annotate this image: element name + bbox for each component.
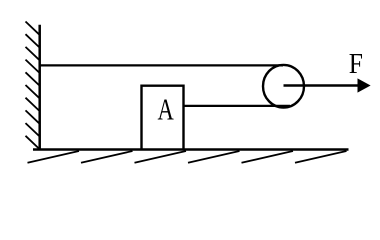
block A <box>142 86 184 149</box>
wall <box>38 25 41 151</box>
top rope <box>40 64 283 66</box>
wall hatching <box>26 22 40 149</box>
ground hatching <box>28 151 347 163</box>
pulley <box>263 65 304 108</box>
svg-text:F: F <box>349 48 363 80</box>
bottom rope <box>184 105 291 107</box>
svg-text:A: A <box>158 92 175 126</box>
ground <box>33 148 349 151</box>
force arrow F <box>284 84 360 87</box>
